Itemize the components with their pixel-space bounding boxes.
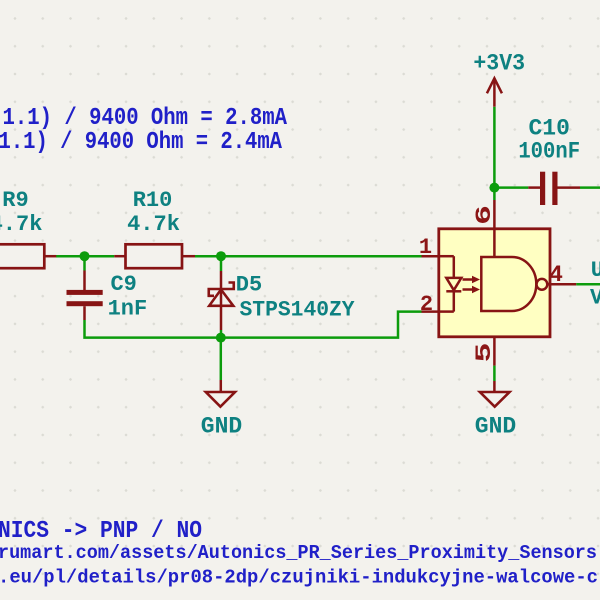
opto light arrows <box>463 276 481 294</box>
svg-text:5: 5 <box>472 343 497 363</box>
svg-text:V: V <box>590 285 600 310</box>
op-amp U optocoupler body <box>439 229 550 337</box>
svg-text:C9: C9 <box>110 272 136 297</box>
wire +3V3 drop <box>493 107 496 200</box>
wire C9 top <box>83 256 86 270</box>
svg-text:1: 1 <box>419 235 432 260</box>
wire D5 bottom green <box>220 330 223 338</box>
wire R9 to R10 node row <box>56 255 114 258</box>
resistor R10 <box>114 244 195 268</box>
diode D5 schottky <box>209 271 234 330</box>
svg-text:rumart.com/assets/Autonics_PR_: rumart.com/assets/Autonics_PR_Series_Pro… <box>0 542 597 564</box>
svg-text:4.7k: 4.7k <box>0 212 42 237</box>
wire bus to opto pin2 <box>221 312 422 338</box>
svg-text:100nF: 100nF <box>518 139 580 165</box>
svg-text:D5: D5 <box>236 272 262 297</box>
ground symbol right <box>480 381 510 407</box>
svg-text:GND: GND <box>475 414 516 440</box>
resistor R9 <box>0 244 56 268</box>
svg-text:STPS140ZY: STPS140ZY <box>240 298 356 323</box>
wire opto pin5 green segment <box>493 366 496 381</box>
svg-text:1.1) / 9400 Ohm = 2.8mA: 1.1) / 9400 Ohm = 2.8mA <box>3 105 288 132</box>
wire R10 to opto pin1 <box>195 255 422 258</box>
wire C9 bottom to gnd bus <box>85 320 221 338</box>
svg-text:R9: R9 <box>2 188 28 213</box>
power symbol +3V3 <box>487 78 502 106</box>
svg-text:R10: R10 <box>133 188 173 213</box>
svg-text:.eu/pl/details/pr08-2dp/czujni: .eu/pl/details/pr08-2dp/czujniki-indukcy… <box>0 567 598 589</box>
wire C10 right to edge <box>580 186 600 189</box>
node junction J2 <box>216 251 226 261</box>
svg-text:1nF: 1nF <box>108 297 148 322</box>
svg-text:2: 2 <box>420 292 433 317</box>
svg-text:4: 4 <box>549 262 563 288</box>
capacitor C9 <box>67 271 103 321</box>
svg-text:4.7k: 4.7k <box>127 212 180 237</box>
svg-text:GND: GND <box>201 414 242 440</box>
opto internal LED <box>439 256 462 311</box>
wire C10 left <box>494 186 528 189</box>
svg-text:6: 6 <box>472 205 497 225</box>
svg-text:+3V3: +3V3 <box>473 51 525 78</box>
opto NAND gate <box>422 200 577 366</box>
capacitor C10 <box>528 172 580 205</box>
node junction J1 <box>80 251 90 261</box>
node junction J4 <box>489 183 499 193</box>
node junction J3 <box>216 333 226 343</box>
wire gnd drop left <box>220 338 223 380</box>
svg-text:U: U <box>591 258 600 283</box>
ground symbol left <box>206 380 235 407</box>
wire opto pin4 out <box>576 283 600 286</box>
svg-text:1.1) / 9400 Ohm = 2.4mA: 1.1) / 9400 Ohm = 2.4mA <box>0 129 282 156</box>
svg-text:NICS -> PNP / NO: NICS -> PNP / NO <box>0 518 202 545</box>
wire D5 anode green <box>220 256 223 271</box>
